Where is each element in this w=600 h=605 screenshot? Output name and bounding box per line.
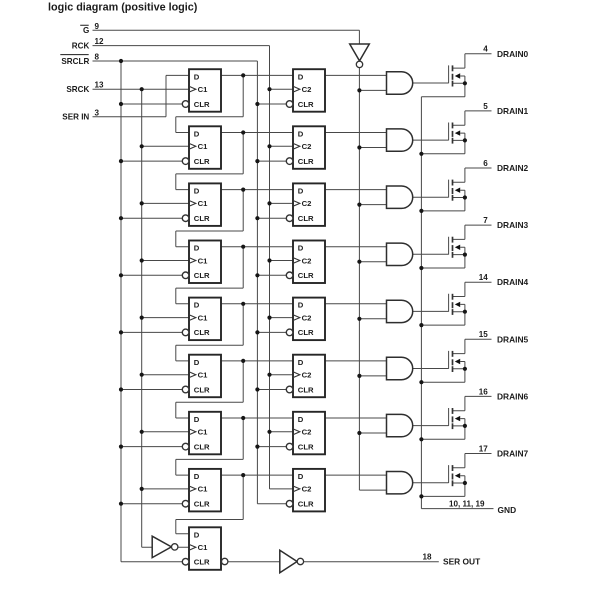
svg-text:DRAIN2: DRAIN2 [497,163,529,173]
svg-text:logic diagram (positive logic): logic diagram (positive logic) [48,2,198,14]
svg-text:DRAIN4: DRAIN4 [497,277,529,287]
svg-text:C2: C2 [302,199,312,208]
svg-text:18: 18 [422,552,432,561]
svg-text:C2: C2 [302,256,312,265]
svg-text:DRAIN6: DRAIN6 [497,391,529,401]
svg-text:D: D [194,472,200,481]
svg-text:D: D [298,358,304,367]
svg-text:12: 12 [95,37,105,46]
svg-text:16: 16 [479,387,489,396]
svg-text:DRAIN3: DRAIN3 [497,220,529,230]
svg-text:D: D [194,187,200,196]
svg-text:DRAIN5: DRAIN5 [497,334,529,344]
svg-text:C1: C1 [198,256,209,265]
svg-text:C1: C1 [198,199,209,208]
svg-text:8: 8 [95,53,100,62]
svg-text:RCK: RCK [72,42,90,51]
svg-text:G: G [83,26,89,35]
svg-text:SER IN: SER IN [62,113,89,122]
svg-text:5: 5 [483,102,488,111]
svg-text:CLR: CLR [298,328,314,337]
svg-text:CLR: CLR [194,328,210,337]
svg-text:DRAIN1: DRAIN1 [497,106,529,116]
svg-text:10, 11, 19: 10, 11, 19 [449,499,485,508]
svg-text:C2: C2 [302,428,312,437]
svg-text:C1: C1 [198,85,209,94]
svg-text:CLR: CLR [194,558,210,567]
svg-text:D: D [298,472,304,481]
svg-text:4: 4 [483,45,488,54]
svg-text:C1: C1 [198,142,209,151]
svg-text:D: D [194,415,200,424]
svg-text:C1: C1 [198,371,209,380]
svg-text:D: D [194,72,200,81]
svg-text:CLR: CLR [298,500,314,509]
svg-text:D: D [298,187,304,196]
svg-text:CLR: CLR [194,442,210,451]
svg-text:13: 13 [95,81,105,90]
svg-text:C2: C2 [302,85,312,94]
svg-text:C2: C2 [302,371,312,380]
svg-text:3: 3 [95,108,100,117]
svg-text:GND: GND [498,505,517,515]
svg-text:D: D [298,244,304,253]
svg-text:D: D [194,301,200,310]
svg-text:C2: C2 [302,313,312,322]
svg-text:D: D [298,301,304,310]
svg-text:17: 17 [479,444,489,453]
svg-text:C1: C1 [198,485,209,494]
svg-text:D: D [298,129,304,138]
svg-text:C1: C1 [198,543,209,552]
svg-text:D: D [194,531,200,540]
svg-text:D: D [194,358,200,367]
svg-text:C1: C1 [198,313,209,322]
svg-text:CLR: CLR [298,157,314,166]
svg-text:D: D [298,415,304,424]
svg-text:CLR: CLR [298,100,314,109]
svg-text:SRCLR: SRCLR [61,57,89,66]
svg-text:9: 9 [95,22,100,31]
svg-text:DRAIN7: DRAIN7 [497,449,529,459]
svg-text:C1: C1 [198,428,209,437]
svg-text:CLR: CLR [298,442,314,451]
svg-text:SER OUT: SER OUT [443,556,481,566]
svg-text:D: D [298,72,304,81]
svg-text:6: 6 [483,159,488,168]
svg-text:CLR: CLR [194,271,210,280]
svg-text:CLR: CLR [194,500,210,509]
svg-text:CLR: CLR [298,214,314,223]
svg-text:DRAIN0: DRAIN0 [497,49,529,59]
svg-text:SRCK: SRCK [66,85,89,94]
svg-text:CLR: CLR [194,100,210,109]
svg-text:CLR: CLR [194,214,210,223]
svg-text:D: D [194,129,200,138]
svg-text:CLR: CLR [194,157,210,166]
svg-text:CLR: CLR [298,385,314,394]
svg-text:D: D [194,244,200,253]
svg-text:C2: C2 [302,485,312,494]
svg-text:CLR: CLR [298,271,314,280]
svg-text:14: 14 [479,273,489,282]
svg-text:7: 7 [483,216,488,225]
svg-text:15: 15 [479,330,489,339]
svg-text:CLR: CLR [194,385,210,394]
svg-text:C2: C2 [302,142,312,151]
